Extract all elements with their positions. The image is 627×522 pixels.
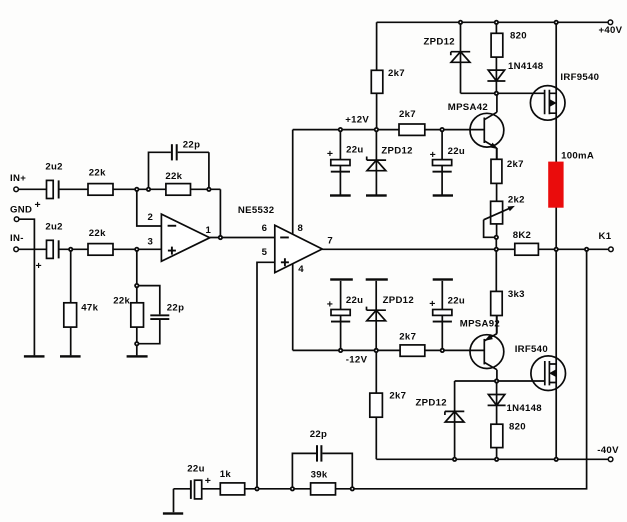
svg-text:47k: 47k: [81, 302, 98, 313]
transistor Q1 MPSA42: [448, 93, 504, 159]
junction node J2: [494, 20, 499, 25]
capacitor C5 22u: [327, 295, 364, 323]
svg-text:22u: 22u: [346, 144, 363, 155]
svg-text:22u: 22u: [448, 146, 465, 157]
junction node J12: [68, 247, 73, 252]
wire IRF540 drain-source column: [555, 249, 557, 459]
wire op-amp U1A pin 2 jog: [137, 189, 162, 226]
wire 22p C2 loop: [149, 152, 209, 189]
junction node J23: [494, 378, 499, 383]
diode D1 1N4148 (top): [487, 61, 543, 81]
wire -12V rail: [293, 349, 485, 351]
op-amp U1A NE5532: [148, 212, 212, 261]
resistor R13 820 (top): [491, 31, 527, 58]
svg-text:100mA: 100mA: [561, 150, 594, 161]
wire 47k branch: [70, 249, 72, 355]
svg-text:39k: 39k: [311, 469, 328, 480]
zener diode D3 ZPD12 (+12V): [367, 145, 413, 170]
svg-text:IN-: IN-: [10, 233, 24, 244]
zener diode D4 ZPD12 (-12V): [367, 295, 414, 321]
junction node J3: [554, 20, 559, 25]
resistor R2 22k (IN-): [88, 228, 113, 255]
terminal GND: [10, 205, 32, 222]
resistor R10 2k7 (MPSA42 emitter): [491, 159, 524, 183]
wire 3k3 chain: [495, 249, 497, 333]
junction node J14: [134, 283, 139, 288]
wire +12V rail: [293, 129, 485, 131]
wire ZPD12 D4 stem: [375, 281, 377, 351]
wire GND drop: [19, 219, 35, 355]
ground (22u C6): [433, 278, 453, 280]
svg-text:K1: K1: [599, 231, 612, 242]
svg-text:+40V: +40V: [599, 25, 623, 36]
trimmer R17 2k2: [484, 195, 525, 224]
junction node J17: [494, 247, 499, 252]
wire 22u C5 stem: [340, 281, 342, 351]
svg-text:2u2: 2u2: [45, 221, 62, 232]
svg-text:22p: 22p: [310, 429, 327, 440]
svg-text:IN+: IN+: [10, 173, 26, 184]
ground (22k/22p): [127, 355, 148, 357]
svg-text:MPSA42: MPSA42: [448, 102, 488, 113]
wire 22p C9 loop: [137, 286, 160, 344]
ground (22u C4): [433, 194, 453, 196]
ground (22u C5): [330, 278, 353, 280]
wire K1 feedback loop: [245, 249, 587, 488]
svg-text:22p: 22p: [183, 139, 200, 150]
diode D6 1N4148 (bottom): [488, 395, 543, 415]
svg-text:+: +: [430, 149, 436, 161]
wire output line to K1: [322, 248, 608, 250]
wire 2k7/2k2 emitter chain: [495, 148, 497, 249]
junction node J5: [374, 127, 379, 132]
capacitor C1b 2u2 (IN-): [36, 221, 63, 272]
junction node J7: [494, 91, 499, 96]
resistor R15 3k3: [491, 289, 525, 316]
resistor R3 22k (feedback): [165, 171, 190, 195]
junction node J20: [338, 348, 343, 353]
junction node J16: [494, 235, 499, 240]
svg-text:8K2: 8K2: [513, 230, 532, 241]
junction node J11: [218, 235, 223, 240]
junction node J1: [458, 20, 463, 25]
capacitor C6 22u: [429, 295, 465, 322]
wire IRF9540 source-drain column: [555, 22, 557, 249]
wire 22u C7 / 1k chain: [174, 489, 221, 513]
wire trimmer wiper return: [484, 220, 497, 238]
ground (47k): [60, 355, 81, 357]
wire feedback corner drop: [219, 189, 221, 237]
svg-text:2k7: 2k7: [399, 109, 416, 120]
ground (ZPD12 D4): [366, 278, 388, 280]
resistor R9 2k7 (+12V rail): [399, 109, 425, 135]
transistor Q2 MPSA92: [460, 316, 504, 382]
svg-text:ZPD12: ZPD12: [381, 145, 412, 156]
svg-text:+: +: [327, 298, 333, 310]
svg-text:2k7: 2k7: [389, 391, 406, 402]
svg-text:3: 3: [148, 237, 154, 248]
svg-text:ZPD12: ZPD12: [416, 397, 447, 408]
MOSFET M2 IRF540: [515, 344, 566, 390]
svg-text:3k3: 3k3: [508, 289, 525, 300]
svg-text:GND: GND: [10, 205, 32, 216]
svg-text:820: 820: [510, 31, 527, 42]
wire ZPD12 D3 stem: [375, 130, 377, 195]
op-amp U1B NE5532: [238, 205, 333, 275]
svg-text:+: +: [429, 298, 435, 310]
svg-text:22p: 22p: [167, 302, 184, 313]
junction node J9: [146, 187, 151, 192]
svg-text:22k: 22k: [89, 167, 106, 178]
capacitor C7 22u (input of feedback leg): [187, 464, 211, 499]
ground (GND input): [24, 355, 45, 357]
capacitor C9 22p (pin3 network): [150, 302, 184, 320]
resistor R8 2k7 (top): [371, 68, 405, 93]
svg-text:+: +: [35, 199, 41, 211]
fuse/LED 100mA red block: [548, 150, 594, 207]
svg-text:4: 4: [298, 264, 304, 275]
capacitor C3 22u: [327, 144, 364, 172]
svg-text:IRF540: IRF540: [515, 344, 548, 355]
svg-text:2k7: 2k7: [388, 68, 405, 79]
svg-text:2k7: 2k7: [399, 331, 416, 342]
wire ZPD12 D5 branch: [454, 381, 456, 459]
wire IN- line: [18, 248, 161, 250]
svg-text:2: 2: [148, 212, 154, 223]
svg-text:1N4148: 1N4148: [507, 403, 543, 414]
wire 22u C3 stem: [339, 130, 341, 195]
wire +40V rail: [377, 21, 609, 23]
resistor R5 22k (to gnd): [113, 296, 143, 327]
resistor R1 22k (IN+): [88, 167, 113, 195]
ground (22u C3): [330, 194, 351, 196]
resistor R16 8K2: [513, 230, 539, 255]
resistor R14 820 (bottom): [491, 422, 526, 448]
svg-text:2k7: 2k7: [507, 159, 524, 170]
wire op-amp U1B pin 5 riser: [257, 262, 275, 489]
ground (22u C7): [163, 512, 183, 514]
junction node J26: [554, 457, 559, 462]
svg-text:1N4148: 1N4148: [508, 61, 544, 72]
svg-text:5: 5: [262, 247, 268, 258]
wire 2k7 top branch (x=376.6): [376, 22, 378, 129]
svg-text:+12V: +12V: [345, 114, 369, 125]
wire 22u C6 stem: [441, 281, 443, 351]
svg-text:2u2: 2u2: [45, 162, 62, 173]
svg-text:820: 820: [509, 422, 526, 433]
resistor R6 1k: [220, 469, 245, 495]
svg-text:1: 1: [206, 225, 212, 236]
MOSFET M1 IRF9540: [530, 72, 599, 120]
ground (ZPD12 D3): [366, 194, 387, 196]
svg-text:1k: 1k: [220, 469, 232, 480]
resistor R7 39k: [311, 469, 336, 495]
terminal IN-: [10, 233, 24, 252]
wire ZPD12 D2 branch: [460, 22, 462, 93]
resistor R12 2k7 (bottom): [370, 391, 407, 418]
zener diode D5 ZPD12 (bottom): [416, 397, 465, 422]
junction node J10: [206, 187, 211, 192]
junction node J25: [494, 457, 499, 462]
svg-text:7: 7: [327, 236, 333, 247]
svg-text:NE5532: NE5532: [238, 205, 274, 216]
zener diode D2 ZPD12 (top): [424, 36, 471, 62]
junction node J18: [554, 247, 559, 252]
wire op-amp U1B pin 8 riser: [292, 130, 294, 235]
junction node J19: [584, 247, 589, 252]
svg-text:22u: 22u: [448, 295, 465, 306]
wire IN+ line: [18, 188, 220, 190]
capacitor C1a 2u2 (IN+): [35, 162, 63, 212]
svg-text:-12V: -12V: [346, 355, 368, 366]
svg-text:22k: 22k: [165, 171, 182, 182]
svg-text:MPSA92: MPSA92: [460, 318, 500, 329]
terminal -40V: [597, 445, 619, 462]
capacitor C4 22u: [430, 146, 465, 173]
junction node J6: [440, 127, 445, 132]
junction node J29: [350, 486, 355, 491]
svg-text:8: 8: [298, 223, 304, 234]
terminal +40V: [599, 20, 623, 36]
junction node J24: [452, 457, 457, 462]
wire op-amp U1A output to pin 6: [210, 237, 275, 239]
svg-text:ZPD12: ZPD12: [424, 36, 455, 47]
svg-text:2k2: 2k2: [508, 195, 525, 206]
wire 22k vertical branch: [136, 249, 138, 355]
svg-text:+: +: [327, 148, 333, 160]
capacitor C2 22p (op-amp1 feedback): [171, 139, 200, 160]
resistor R4 47k: [64, 302, 99, 327]
junction node J13: [134, 247, 139, 252]
junction node J8: [134, 187, 139, 192]
terminal K1: [599, 231, 614, 252]
svg-text:ZPD12: ZPD12: [383, 295, 414, 306]
wire top gate line node: [461, 92, 545, 94]
wire 2k7 bottom branch (x=376.3): [375, 350, 377, 459]
junction node J21: [374, 348, 379, 353]
svg-text:+: +: [36, 260, 42, 272]
terminal IN+: [10, 173, 26, 191]
wire 820/1N4148 branch: [495, 22, 497, 93]
capacitor C8 22p (39k parallel): [310, 429, 327, 462]
junction node J28: [290, 486, 295, 491]
svg-text:-40V: -40V: [597, 445, 619, 456]
resistor R11 2k7 (-12V rail): [399, 331, 425, 356]
wire -40V rail: [376, 458, 608, 460]
wire bottom gate line node: [455, 380, 545, 382]
wire op-amp U1B pin 4 riser: [292, 264, 294, 351]
svg-text:22k: 22k: [89, 228, 106, 239]
wire 1N4148/820 bottom branch: [496, 381, 498, 459]
svg-text:IRF9540: IRF9540: [560, 72, 599, 83]
wire 22p C8 loop: [292, 453, 352, 488]
svg-text:22k: 22k: [113, 296, 130, 307]
junction node J15: [134, 341, 139, 346]
junction node J4: [338, 127, 343, 132]
junction node J22: [440, 348, 445, 353]
svg-text:+: +: [205, 475, 211, 487]
wire 22u C4 stem: [441, 130, 443, 195]
svg-text:22u: 22u: [346, 295, 363, 306]
svg-text:22u: 22u: [187, 464, 204, 475]
junction node J27: [254, 486, 259, 491]
svg-text:6: 6: [262, 223, 268, 234]
